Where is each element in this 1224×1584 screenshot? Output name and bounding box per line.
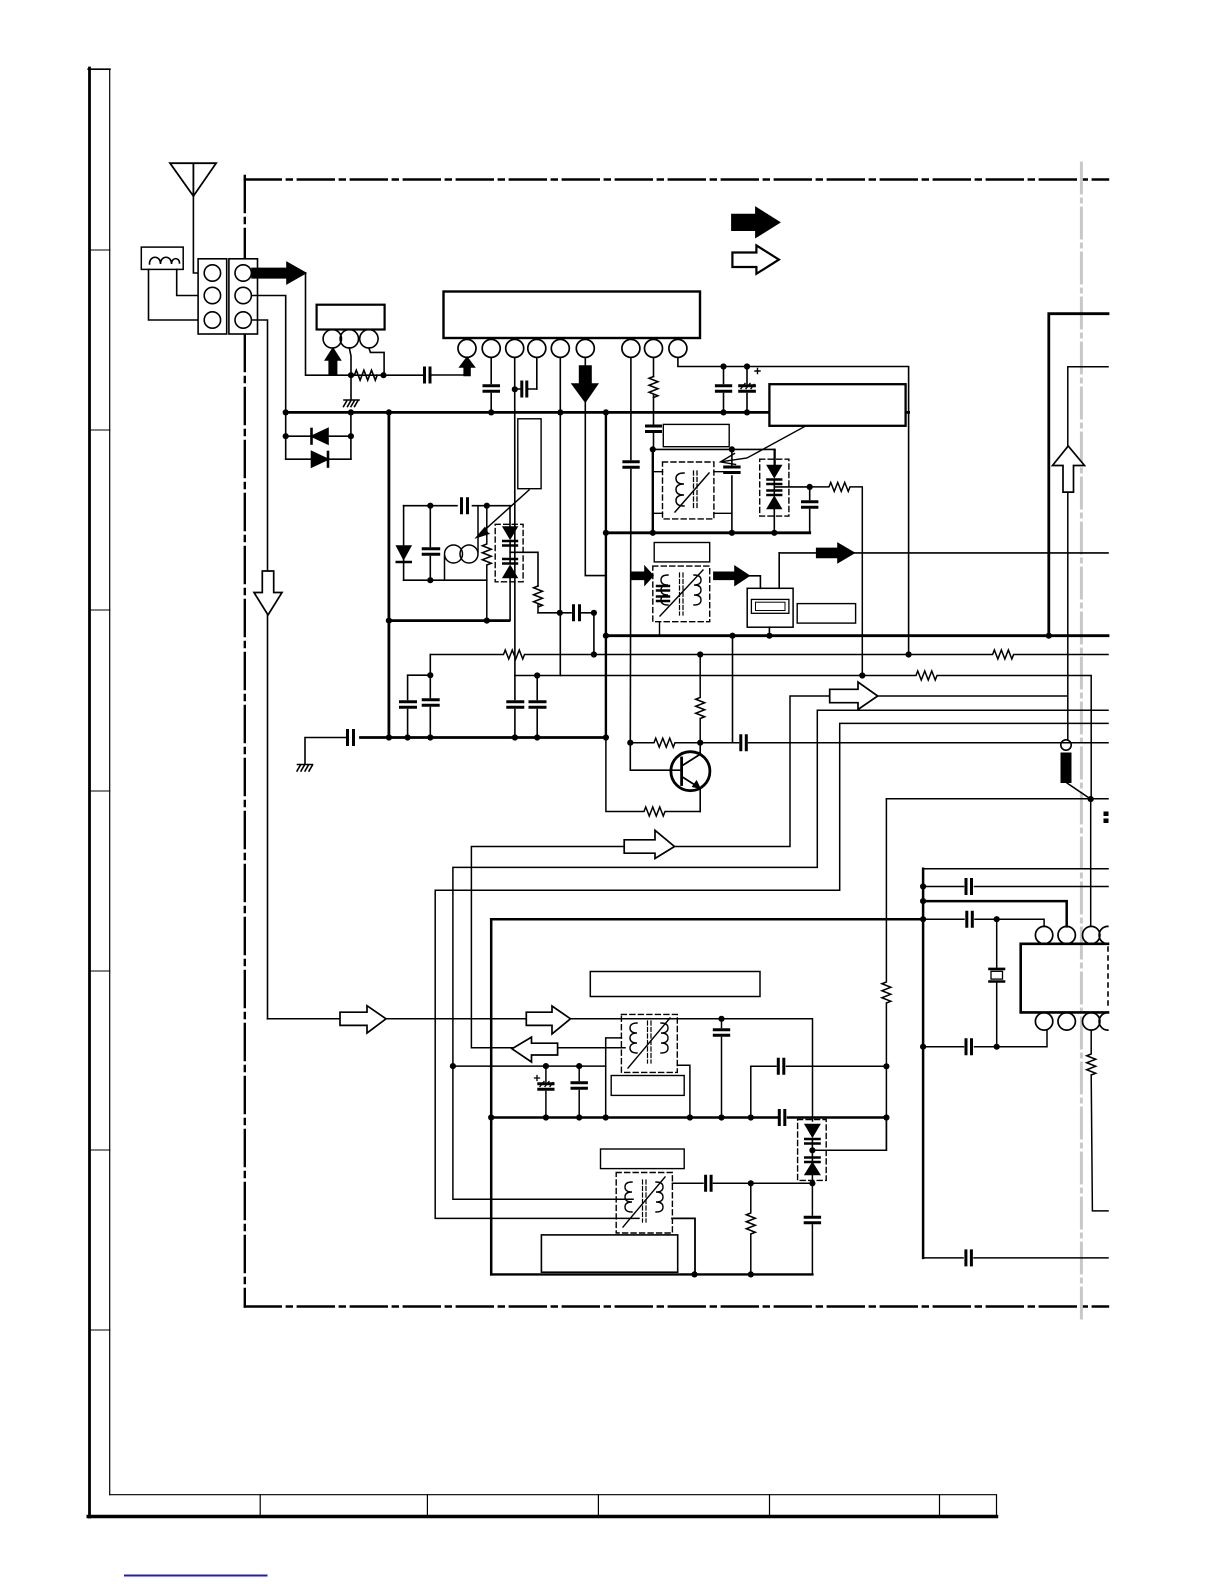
flow arrow (outline, up) on W1 riser [1053,446,1085,492]
wire diode D2 [286,458,351,460]
flow arrow (filled, up) into U1 pin1 [460,358,474,376]
ruler tick x427 [426,1495,428,1517]
wire CN2 pin1 to IC2 pin1 arrow [304,273,423,375]
T3 right tap wire [677,1065,690,1117]
label box (AM IF T4) [601,1149,685,1169]
node x923 y886 [920,883,926,889]
page frame bottom border [88,1515,996,1518]
T3 windings [630,1023,637,1053]
resistor R4 (tank damping) [482,506,491,621]
VCC thick riser x389 [387,412,390,737]
IC U2 pin1 [323,330,341,348]
capacitor C5 (pin8) [647,426,661,432]
node AFC x537 [534,672,540,678]
T4 right tap to ground [672,1218,695,1274]
AM IF transformer T2 dashed box [653,566,710,622]
wire R5 to C10 line [538,612,571,614]
coil label box L2 [518,419,541,489]
node x606 bus635 [603,633,609,639]
clipped text 8 [1104,812,1109,817]
frame tick y250 [90,249,110,251]
IF output line y553 [779,552,1108,554]
electrolytic cap C20 [545,1066,547,1117]
capacitor C10 [574,606,580,620]
IC U3 pin3 bottom [1083,1013,1100,1030]
connector CN1 body [198,259,227,334]
wire U1 pin7 down [630,357,632,459]
flow arrow (outline, left) on W1 bottom [512,1037,558,1062]
node y1117 x721 [718,1114,724,1120]
flow arrow (outline) AM feed 2 [526,1006,570,1034]
AM varactor D6 dashed box [798,1120,827,1181]
node y533 x775 [771,530,777,536]
callout arrow from label box to quad coil [723,426,806,462]
thick riser x606 [605,412,607,737]
D6 mid tap wire [812,1118,886,1151]
node y1117 x546 [543,1114,549,1120]
AM detector out wire W1 [471,367,1108,1048]
AM feed line y1019 [268,1019,813,1121]
crystal X1 chain [990,919,1005,1046]
wire antenna stem to connector pin1 [193,196,204,273]
node bus VCC riser [386,409,392,415]
wire x751 to bus [750,1066,752,1117]
AVC segment y1066 right [751,1065,887,1067]
node C7 bus [744,409,750,415]
antenna ANT1 [170,163,216,196]
node y1066 x546 [543,1063,549,1069]
headphone jack test point [1061,740,1071,750]
node x491 y1117 [488,1114,494,1120]
node y533 x653 [650,530,656,536]
IC U1 pin7 [622,339,640,357]
wire coil right lead to connector pin2 [177,269,205,295]
capacitor C22 in bus [779,1111,785,1125]
IC U1 pin5 [551,339,569,357]
frame tick y1150 [90,1149,110,1151]
node bus diode leg [348,409,354,415]
connector CN2 pin2 [235,287,251,303]
page frame outer left border [88,68,91,1517]
T1 winding loops [676,473,684,506]
emitter loop with R9 [606,738,700,817]
label box (ceramic filter) [797,604,855,624]
node x886 y1117 [883,1114,889,1120]
AM VCC line y919 thick [491,918,923,921]
IC U3 clipped edge [1107,947,1109,1009]
thick leg x653 [652,449,654,532]
ground at U2 bias [344,375,360,406]
node thick620 x487 [484,618,490,624]
IC U1 pin2 [482,339,500,357]
wire Q1 base [630,743,681,771]
thick line y901 to IC3 pin2 [923,901,1067,926]
IC U3 pin1 bottom [1035,1013,1052,1030]
wire U1 pin6 below arrow [585,402,606,576]
node bus635 x732 [729,633,735,639]
wire R3 to C5 [653,396,655,425]
IC U2 (FM RF amp) body [317,305,385,330]
AFC line y675 [515,671,1091,799]
label box (AM converter) [590,972,760,997]
node bus2 x537 [534,734,540,740]
diode D3 (points down) [397,546,411,559]
connector CN2 pin1 [235,265,251,281]
AGC line y654 [430,650,1108,659]
wire U2 pin2 to bias node [349,348,351,375]
block border dash-dot left [244,176,246,1307]
varactor D4 dual diode [503,527,517,539]
node U1 pin2 bus [488,409,494,415]
connector CN2 body [229,259,258,334]
detector node line y449 [653,449,775,466]
varactor D5 dashed box [760,459,789,516]
IC U3 pin2 bottom [1058,1013,1075,1030]
wire diode D1 [286,435,351,437]
AM osc transformer T3 dashed box [621,1014,677,1072]
node D1 left [283,433,289,439]
flow arrow (filled) into T2 [632,567,653,585]
page frame inner left line [109,69,111,1495]
diode pair legs [286,412,351,459]
frame tick y971 [90,970,110,972]
resistor R7 (collector load) [696,655,705,743]
IC U1 (FM tuner) body [444,292,701,339]
blue revision underline [125,1575,267,1577]
tank mid leg [429,506,431,581]
node tank top x430 [427,503,433,509]
IC U1 pin6 [576,339,594,357]
connector CN2 pin3 [235,312,251,328]
FM tank top line [404,505,510,507]
resistor R10 drop x886 [882,799,891,1151]
frame tick y430 [90,429,110,431]
wire CN2 pin3 AM antenna feed down [252,320,267,1019]
tank bottom line [404,579,487,581]
wire C17 to ground [297,738,346,772]
decoupling cap C13 chain x430 [423,655,438,738]
connector CN1 pin3 [204,312,220,328]
ceramic filter CF1 body [747,588,793,627]
varactor D4 tap to R5 [510,552,538,586]
varactor D6 dual diode [805,1125,819,1137]
node y919 x997 [994,916,1000,922]
resistor R2 (U2 pin2 to rail) [354,370,377,380]
capacitor C1 (input coupling) [425,368,431,382]
AM ground bottom y1274 [491,1273,812,1275]
capacitor C17 (bus2 left) [348,731,354,745]
node x923 y901 [920,898,926,904]
flow arrow (filled, down) from U1 pin6 [572,366,597,402]
node y1274 x694 [691,1271,697,1277]
D6 bottom line with C25 [672,1182,812,1184]
capacitor C18 [741,736,747,750]
wire coil left lead to connector pin3 [149,269,205,320]
audio riser x923 thick [922,869,925,1258]
node bus635 x1049 [1046,633,1052,639]
AM VCC line y919 thin to IC3 pin1 [923,919,1044,926]
capacitor C21 [578,1066,580,1117]
transistor Q1 [671,752,710,791]
T3 left tap wire [606,1038,622,1118]
wire C4 down to transistor base line [629,470,632,743]
capacitor C4 (pin7) [624,462,638,468]
node pin9 C7 [744,363,750,369]
IC U2 pin2 [340,330,358,348]
node x997 y1046 [994,1044,1000,1050]
capacitor C3 (pin3-pin4) [522,382,527,396]
node bus2 x408 [405,734,411,740]
block border dash-dot bottom [245,1305,1108,1307]
node riser/bus2 [386,734,392,740]
node base line x630 [627,740,633,746]
signal arrow (filled) at CN2 pin1 [252,263,306,284]
node R6 drop on AFC line [859,672,865,678]
wire C3 to pin4 [515,388,537,390]
AM osc wire W3 [435,723,1108,1218]
D5 mid tap wire [774,486,809,488]
node y1066 x579 [576,1063,582,1069]
stereo line y799 [886,798,1108,800]
node bus x606 riser [603,409,609,415]
node bus2 x430 [427,734,433,740]
node x594 on AGC line [591,651,597,657]
IC U1 pin4 [528,339,546,357]
T4 windings [625,1182,632,1212]
wire C2 to bus [490,394,492,413]
node AGC x700 [697,651,703,657]
page frame top cap [88,68,110,70]
bottom line y1258 with C29 [923,1257,1108,1259]
T1 adjust slash [675,473,709,512]
node y449 x653 [650,446,656,452]
ruler tick x939 [939,1495,941,1517]
supply bus y=412 [286,411,909,414]
flow arrow (filled) on IF line [817,544,854,563]
node Q1 collector [697,740,703,746]
resistor R6 [810,482,863,675]
ruler tick x769 [769,1495,771,1517]
node x751 y1117 [748,1114,754,1120]
cap C15 chain x515 [508,676,523,738]
wire U2 pin3 to VCC rail [369,348,384,375]
wire U1 pin5 long drop [559,357,561,675]
T2 bottom stub [659,622,661,636]
capacitor C11 (x732) [725,467,739,473]
wire x732 bus635 to base line [732,636,734,743]
node C14 top [427,672,433,678]
audio line y868 [923,868,1108,870]
block border dash-dot top [245,178,1108,180]
jack lever to node [1067,783,1091,799]
IC U3 pin4 bottom (clipped) [1099,1013,1108,1030]
thick ground line y533 [606,531,810,534]
capacitor C2 (U1 pin2 bypass) [484,386,499,392]
antenna coil L1 box [141,247,183,269]
node riser/thick line 620 [386,618,392,624]
wire C5 to detector node [653,434,655,450]
node pin3/C3 [512,386,518,392]
capacitor C19 in y919 [967,912,973,926]
flow arrow (outline) on W1 horizontal [624,830,674,858]
node x560 line612 [557,610,563,616]
wire U1 pin6 stub [584,357,586,366]
node C10 right [591,610,597,616]
label box (AM IF transformer) [654,543,710,562]
wire CN2 pin2 down to supply bus [252,296,285,413]
ground bus2 y737 [361,736,606,739]
node y533 x606 [603,530,609,536]
antenna coil L1 loops [150,257,180,264]
node D6 bottom [809,1180,815,1186]
wire U1 pin8 stub [653,357,655,376]
capacitor C6 [716,367,730,413]
node y1274 x751 [748,1271,754,1277]
wire U1 pin3 long drop to AGC line [514,357,516,675]
flow arrow (filled, up) into U2 pin1 [326,348,341,375]
node y1117 x579 [576,1114,582,1120]
ground bus y635 [606,634,1108,637]
varactor D4 dashed box [495,524,523,582]
node y449 x732 [729,446,735,452]
tank left leg [403,506,405,581]
varactor D5 dual diode [773,449,775,465]
T2 primary caps [657,586,669,601]
IC U3 pin4 top (clipped) [1099,926,1108,943]
node x923 y1046 [920,1044,926,1050]
label box (big, top right) [769,384,905,426]
node U2 bias [348,372,354,378]
capacitor C12 [803,487,817,533]
wire U1 pin9 to right riser [678,357,909,654]
node y533 x732 [729,530,735,536]
node C6 bus [720,409,726,415]
resistor R3 (pin8) [649,377,658,398]
line y1046 with C28 to IC3 pin1b [923,1030,1047,1047]
legend arrow (filled) [732,208,780,238]
base line y743 with R8 and C18 [630,738,1108,747]
node x606 y1117 [603,1114,609,1120]
node AGC x909 [906,651,912,657]
wire U1 pin4 down [536,357,538,389]
node bus pin5 [557,409,563,415]
FM osc wire W2 [453,710,1108,1199]
IC U3 pin3 top [1083,926,1100,943]
wire rail to C1 to U1 pin1 arrow [432,374,468,376]
node D5 tap [807,484,813,490]
frame tick y1330 [90,1329,110,1331]
IC U1 pin9 [669,339,687,357]
legend arrow (outline) [732,245,779,273]
frame tick y610 [90,609,110,611]
crystal X1 body [991,971,1003,979]
flow arrow (outline) AM feed 1 [340,1006,386,1033]
node y799 x1091 [1088,796,1094,802]
IC U1 pin8 [645,339,663,357]
quad detector coil T1 dashed box [663,462,714,519]
wire C10 to x594 [582,613,594,655]
node y919 x923 [920,916,926,922]
capacitor C8 (tank top) [462,499,468,513]
IC U1 pin1 [458,339,476,357]
node y1183 x751 [748,1180,754,1186]
resistor R11 drop x751 [746,1183,755,1274]
ruler tick x260 [259,1495,261,1517]
node x690 y1117 [687,1114,693,1120]
IC U1 pin3 [506,339,524,357]
node tank top x487 [484,503,490,509]
wire arrow to filter pin1 [749,576,760,589]
D6 chain down x812 with C26 [805,1175,819,1275]
node x886 y1066 [883,1063,889,1069]
node bus CN2pin2 [283,409,289,415]
node bus2 x515 [512,734,518,740]
label box (quad coil) [663,424,729,446]
node pin9 C6 [720,363,726,369]
node tank bottom [427,577,433,583]
wire U1 pin2 down [490,357,492,383]
IC U3 pin2 top [1058,926,1075,943]
node W2 x453 [450,1063,456,1069]
flow arrow (outline) on W1 mid [830,682,878,710]
plus mark C7 [755,369,760,374]
wire node to IC3 pin3 [1090,799,1092,926]
page frame inner bottom line [110,1495,997,1515]
label box (AM osc coil) [611,1076,684,1096]
AM ground bus y1117 [491,1116,886,1119]
leg x732 [731,449,733,532]
node D6 mid [809,1147,815,1153]
connector CN1 pin1 [204,265,220,281]
line y886 with C27 [923,886,1108,888]
T2 windings [661,575,668,605]
flow arrow (filled) T2 to filter [714,567,749,586]
IC U3 (PLL/controller) body [1021,944,1108,1013]
capacitor C9 (tank) [423,549,439,555]
connector CN1 pin2 [204,287,220,303]
varactor D4 top connect [509,506,511,527]
IC U3 pin1 top [1035,926,1052,943]
capacitor C23 (osc pad) [714,1019,728,1118]
T1 stubs [653,472,732,514]
varactor D4 bottom connect [509,578,511,621]
resistor R12 from U3 pin3 bottom [1087,1030,1108,1211]
thick line y620 [389,619,509,622]
variable inductor L2 loops [445,545,463,563]
resistor R5 [534,586,543,613]
filter pin2 riser to IF out line [778,553,780,588]
down arrow (outline) on AM feed [254,571,282,615]
IC U2 pin3 [360,330,378,348]
diode D2 (points right) [312,452,329,468]
label box (AM block bottom) [541,1235,677,1272]
node x606 bus2 end [603,734,609,740]
node AM feed x721 [718,1016,724,1022]
diode D1 (points left) [312,429,329,445]
cap C14 chain x408 [401,675,431,737]
AM VCC riser x491 thick [490,919,493,1274]
cap C16 chain x537 [530,676,545,738]
filter ground pin [768,627,770,636]
AVC line left y1066 [453,1065,606,1067]
L2 adjust arrow [478,490,529,536]
thick supply L corner top right [1049,314,1108,636]
T1 core dashes [694,471,698,508]
gray fold line [1080,163,1083,1322]
node filter ground [766,633,772,639]
AM IF transformer T4 dashed box [616,1173,672,1234]
frame tick y791 [90,790,110,792]
